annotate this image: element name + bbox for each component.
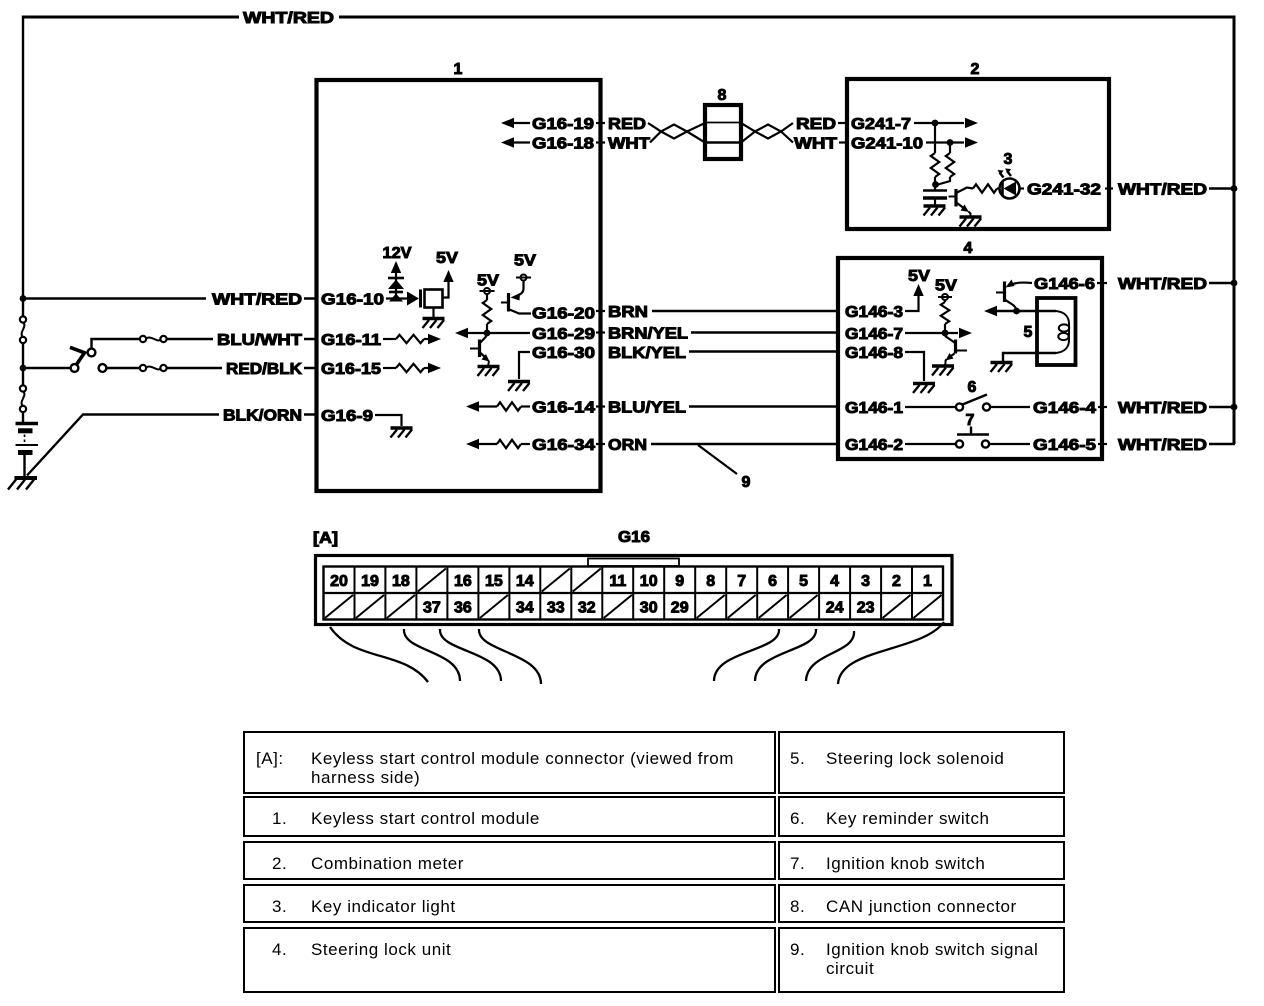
pin G16-18 <box>501 137 514 147</box>
svg-text:5: 5 <box>799 573 808 590</box>
wire harness lead 8 <box>838 622 944 684</box>
connector G16 bottom cell 2 blank <box>356 595 384 618</box>
wire twisted pair left (RED) <box>648 123 705 143</box>
wire U1 to 5V <box>443 281 449 298</box>
ground G146-8 <box>913 384 935 394</box>
svg-text:5V: 5V <box>514 253 536 270</box>
wire through connector 8 upper <box>707 122 739 124</box>
svg-text:10: 10 <box>640 573 658 590</box>
wire twisted pair right (RED) <box>741 123 793 143</box>
svg-text:WHT/RED: WHT/RED <box>212 292 302 309</box>
wire harness lead 6 <box>755 629 816 681</box>
fuse F4 (RED/BLK) <box>140 365 146 371</box>
legend left row A <box>243 731 776 794</box>
svg-text:[A]: [A] <box>313 530 338 547</box>
connector G16 bottom cell 19 blank <box>883 595 911 618</box>
connector G16 bottom cell 1 blank <box>325 595 353 618</box>
svg-text:G16-34: G16-34 <box>532 437 595 454</box>
connector G16 grid line 12 <box>694 567 696 620</box>
svg-text:23: 23 <box>857 600 875 617</box>
legend left row 4 <box>243 927 776 993</box>
resistor R3 (5V pull-up) <box>486 294 488 300</box>
wire harness lead 2 <box>404 629 460 681</box>
pin G146-4 <box>991 406 1031 408</box>
wire switch upper contact to BLU/WHT <box>92 339 141 349</box>
svg-text:G16-30: G16-30 <box>532 345 595 362</box>
module 4 Steering lock unit box <box>838 258 1102 459</box>
connector G16 bottom cell 15 blank <box>759 595 787 618</box>
transistor Q2 (G16-20 driver) <box>518 281 524 296</box>
pin G16-29 <box>455 328 468 338</box>
connector G16 grid line 8 <box>570 567 572 620</box>
svg-text:G146-7: G146-7 <box>845 326 903 343</box>
svg-text:18: 18 <box>392 573 410 590</box>
ground battery <box>15 476 38 480</box>
svg-text:G146-6: G146-6 <box>1034 276 1095 293</box>
connector G16 top cell 8 blank <box>542 569 570 592</box>
svg-text:24: 24 <box>826 600 844 617</box>
svg-text:3: 3 <box>1004 151 1013 168</box>
svg-text:G16-20: G16-20 <box>532 306 595 323</box>
svg-text:5V: 5V <box>935 278 957 295</box>
svg-text:37: 37 <box>423 600 441 617</box>
node junction right bus / G146-6 feed <box>1231 280 1238 287</box>
svg-text:G146-5: G146-5 <box>1033 437 1096 454</box>
connector G16 grid line 9 <box>601 567 603 620</box>
transistor Q4 <box>954 340 957 354</box>
fuse F3 (BLU/WHT) <box>140 336 146 342</box>
connector G16 grid line 7 <box>539 567 541 620</box>
svg-text:8: 8 <box>718 87 727 104</box>
legend right row 9 <box>778 927 1065 993</box>
battery B1 <box>16 422 39 426</box>
connector G16 bottom cell 10 blank <box>604 595 632 618</box>
legend right row 7 <box>778 841 1065 881</box>
wire BLK/ORN ground lead (diagonal) <box>27 415 316 476</box>
svg-text:G16: G16 <box>618 529 650 546</box>
connector G16 grid line 2 <box>384 567 386 620</box>
connector G16 top cell 4 blank <box>418 569 446 592</box>
svg-text:BRN/YEL: BRN/YEL <box>608 326 688 343</box>
connector G16 grid line 18 <box>880 567 882 620</box>
pin G16-14 <box>466 401 479 411</box>
connector G16 grid line 15 <box>787 567 789 620</box>
svg-text:9: 9 <box>742 474 751 491</box>
svg-text:8: 8 <box>706 573 715 590</box>
svg-text:G146-2: G146-2 <box>845 437 903 454</box>
connector G16 grid line 3 <box>415 567 417 620</box>
svg-text:BLK/YEL: BLK/YEL <box>608 345 686 362</box>
svg-text:3: 3 <box>861 573 870 590</box>
connector G16 bottom cell 20 blank <box>914 595 942 618</box>
svg-text:12V: 12V <box>383 245 412 262</box>
svg-text:G241-10: G241-10 <box>851 136 923 153</box>
connector G16 bottom cell 14 blank <box>728 595 756 618</box>
wire fuse F2 to battery <box>22 412 24 422</box>
component U1 regulator box <box>425 290 443 308</box>
svg-text:5: 5 <box>1024 324 1033 341</box>
resistor R7 (CAN term 2) <box>949 143 951 154</box>
connector G16 top tab <box>588 559 679 567</box>
wire U1 to ground <box>432 308 434 318</box>
svg-text:WHT/RED: WHT/RED <box>243 10 334 27</box>
wire solenoid to ground <box>1003 353 1056 361</box>
svg-text:5V: 5V <box>908 268 930 285</box>
wire left bus from battery <box>22 16 24 317</box>
node junction R6/R7 <box>932 181 939 188</box>
svg-text:RED: RED <box>796 116 836 133</box>
svg-text:G146-8: G146-8 <box>845 345 903 362</box>
svg-text:7: 7 <box>737 573 746 590</box>
node label RED/BLK <box>222 360 304 376</box>
pin G16-19 <box>501 118 514 128</box>
svg-text:G16-14: G16-14 <box>532 400 595 417</box>
connector G16 bottom cell 16 blank <box>790 595 818 618</box>
node label WHT/RED <box>206 291 304 307</box>
node junction G241-10 <box>947 139 954 146</box>
svg-text:WHT/RED: WHT/RED <box>1118 182 1207 199</box>
ground Q4 emitter <box>932 366 954 376</box>
svg-text:RED: RED <box>608 116 646 133</box>
pin G16-34 <box>466 439 479 449</box>
power 5V arrow (U1) <box>443 270 453 282</box>
wire switch lower contact <box>107 367 141 369</box>
wire harness lead 4 <box>479 629 541 684</box>
svg-text:19: 19 <box>361 573 379 590</box>
fuse F1 <box>20 316 26 322</box>
svg-text:G16-29: G16-29 <box>532 326 595 343</box>
svg-text:20: 20 <box>330 573 348 590</box>
node label BLK/ORN <box>219 407 304 423</box>
transistor Q1 <box>478 340 481 358</box>
svg-text:9: 9 <box>675 573 684 590</box>
wire harness lead 1 <box>330 627 428 682</box>
legend left row 3 <box>243 884 776 924</box>
svg-text:14: 14 <box>516 573 534 590</box>
svg-text:G241-32: G241-32 <box>1027 182 1101 199</box>
wire through connector 8 lower <box>707 141 739 143</box>
svg-text:G16-19: G16-19 <box>532 116 594 133</box>
node junction right bus / G146-4 feed <box>1231 404 1238 411</box>
svg-text:32: 32 <box>578 600 596 617</box>
ground Q1 emitter <box>478 367 500 377</box>
svg-text:G16-18: G16-18 <box>532 136 594 153</box>
connector G16 grid line 4 <box>446 567 448 620</box>
wire solenoid control <box>984 306 997 316</box>
resistor R6 (CAN term 1) <box>934 123 936 153</box>
fuse F2 <box>20 385 26 391</box>
svg-text:11: 11 <box>609 573 626 590</box>
svg-text:BLU/WHT: BLU/WHT <box>217 332 302 349</box>
svg-text:34: 34 <box>516 600 534 617</box>
ground Q3 emitter <box>960 217 982 227</box>
legend left row 1 <box>243 796 776 838</box>
svg-text:7: 7 <box>966 412 975 429</box>
ground solenoid <box>991 363 1013 373</box>
legend left row 2 <box>243 841 776 881</box>
wire 12V pull-up <box>395 271 397 300</box>
connector G16 grid line 13 <box>725 567 727 620</box>
node junction left bus / ignition switch <box>20 365 27 372</box>
node junction G241-7 <box>932 120 939 127</box>
module 2 Combination meter box <box>847 79 1109 229</box>
svg-text:5V: 5V <box>477 273 499 290</box>
svg-text:G16-10: G16-10 <box>321 292 384 309</box>
connector G16 grid line 16 <box>818 567 820 620</box>
ground G16-30 <box>508 382 530 392</box>
svg-text:29: 29 <box>671 600 689 617</box>
legend right row 5 <box>778 731 1065 794</box>
connector G16 grid line 19 <box>911 567 913 620</box>
power 12V arrow <box>391 261 401 273</box>
node junction R9/G146-7 <box>942 330 949 337</box>
wire right bus WHT/RED <box>1233 16 1236 445</box>
connector G16 bottom cell 3 blank <box>387 595 415 618</box>
solenoid 5 steering lock box <box>1037 298 1076 365</box>
diode D3 (series) <box>407 292 419 306</box>
svg-text:WHT: WHT <box>794 136 837 153</box>
connector G16 bottom cell 13 blank <box>697 595 725 618</box>
power 5V arrow (G146-3) <box>913 284 923 296</box>
svg-text:2: 2 <box>971 61 980 78</box>
connector G16 grid line 14 <box>756 567 758 620</box>
connector G16 pin grid <box>324 567 944 620</box>
ground C1 <box>924 206 946 216</box>
wire twisted pair right (WHT) <box>741 123 793 143</box>
svg-text:G16-11: G16-11 <box>321 332 381 349</box>
svg-text:WHT/RED: WHT/RED <box>1118 276 1207 293</box>
pin G146-5 <box>990 443 1031 445</box>
svg-text:1: 1 <box>923 573 932 590</box>
svg-text:33: 33 <box>547 600 565 617</box>
connector G16 grid line 17 <box>849 567 851 620</box>
svg-text:G16-9: G16-9 <box>321 408 373 425</box>
svg-text:16: 16 <box>454 573 472 590</box>
connector G16 grid line 1 <box>354 567 356 620</box>
node 9 ignition knob switch signal circuit leader <box>698 445 737 474</box>
svg-text:6: 6 <box>768 573 777 590</box>
resistor R9 <box>944 300 946 302</box>
svg-text:ORN: ORN <box>608 437 647 454</box>
svg-text:BLK/ORN: BLK/ORN <box>223 408 302 425</box>
resistor R5 <box>497 440 521 448</box>
wire BLU/WHT to G16-11 <box>167 338 317 340</box>
svg-text:WHT/RED: WHT/RED <box>1118 437 1207 454</box>
node label BLU/WHT <box>213 331 304 347</box>
resistor R4 <box>497 402 521 410</box>
svg-text:G146-1: G146-1 <box>845 400 903 417</box>
svg-text:WHT: WHT <box>608 136 650 153</box>
connector G16 outer shell <box>316 556 953 625</box>
diode D1 (to 12V, upper) <box>388 277 404 280</box>
resistor R1 <box>396 335 424 343</box>
node junction right bus / key indicator feed <box>1231 185 1238 192</box>
svg-text:G241-7: G241-7 <box>851 116 911 133</box>
wire harness lead 5 <box>714 629 779 681</box>
wire harness lead 7 <box>806 631 854 681</box>
node top WHT/RED label <box>239 9 339 25</box>
legend right row 8 <box>778 884 1065 924</box>
wire twisted pair left (WHT) <box>650 123 705 143</box>
LED 3 key indicator light <box>1000 179 1020 199</box>
connector G16 grid line 5 <box>477 567 479 620</box>
wire left bus middle <box>22 343 24 386</box>
connector G16 bottom cell 6 blank <box>480 595 508 618</box>
pin G241-32 <box>1020 187 1025 189</box>
wire RED/BLK to G16-15 <box>167 367 317 369</box>
connector G16 grid line 10 <box>632 567 634 620</box>
node junction left bus / WHT-RED <box>20 295 27 302</box>
transistor Q3 (key light driver) <box>949 196 957 198</box>
switch ignition (knob) <box>23 367 71 369</box>
diode D2 (to 12V, lower) <box>389 291 403 294</box>
svg-text:1: 1 <box>454 61 463 78</box>
inductor L1 (solenoid coil) <box>1056 311 1069 353</box>
switch 6 key reminder <box>956 403 963 410</box>
svg-text:6: 6 <box>968 379 977 396</box>
svg-text:G146-4: G146-4 <box>1033 400 1096 417</box>
wire WHT/RED main feed (top) <box>23 16 1234 19</box>
svg-text:2: 2 <box>892 573 901 590</box>
resistor R2 <box>396 364 424 372</box>
wire harness lead 3 <box>440 629 501 681</box>
svg-text:36: 36 <box>454 600 472 617</box>
legend right row 6 <box>778 796 1065 838</box>
svg-text:G16-15: G16-15 <box>321 361 381 378</box>
module 1 Keyless start control module box <box>317 80 601 491</box>
transistor Q5 (solenoid driver) <box>1012 283 1032 285</box>
connector G16 grid line 11 <box>663 567 665 620</box>
connector 8 CAN junction box <box>705 105 741 159</box>
svg-text:4: 4 <box>964 240 973 257</box>
svg-text:WHT/RED: WHT/RED <box>1118 400 1207 417</box>
wire WHT/RED battery feed to G16-10 <box>23 297 316 299</box>
node junction R3/G16-29 <box>484 330 491 337</box>
svg-text:30: 30 <box>640 600 658 617</box>
svg-text:G146-3: G146-3 <box>845 304 903 321</box>
connector G16 grid line 6 <box>508 567 510 620</box>
wire battery negative to ground <box>23 455 25 477</box>
capacitor C1 <box>934 184 936 190</box>
svg-text:4: 4 <box>830 573 839 590</box>
node junction Q5/solenoid <box>1013 308 1020 315</box>
svg-text:15: 15 <box>485 573 503 590</box>
connector G16 top cell 9 blank <box>573 569 601 592</box>
ground G16-9 <box>391 428 413 438</box>
resistor R8 (LED series) <box>973 184 997 192</box>
ground U1 <box>423 319 445 329</box>
svg-text:RED/BLK: RED/BLK <box>226 361 302 378</box>
svg-text:BRN: BRN <box>608 304 648 321</box>
svg-text:BLU/YEL: BLU/YEL <box>608 400 686 417</box>
svg-text:5V: 5V <box>436 250 458 267</box>
